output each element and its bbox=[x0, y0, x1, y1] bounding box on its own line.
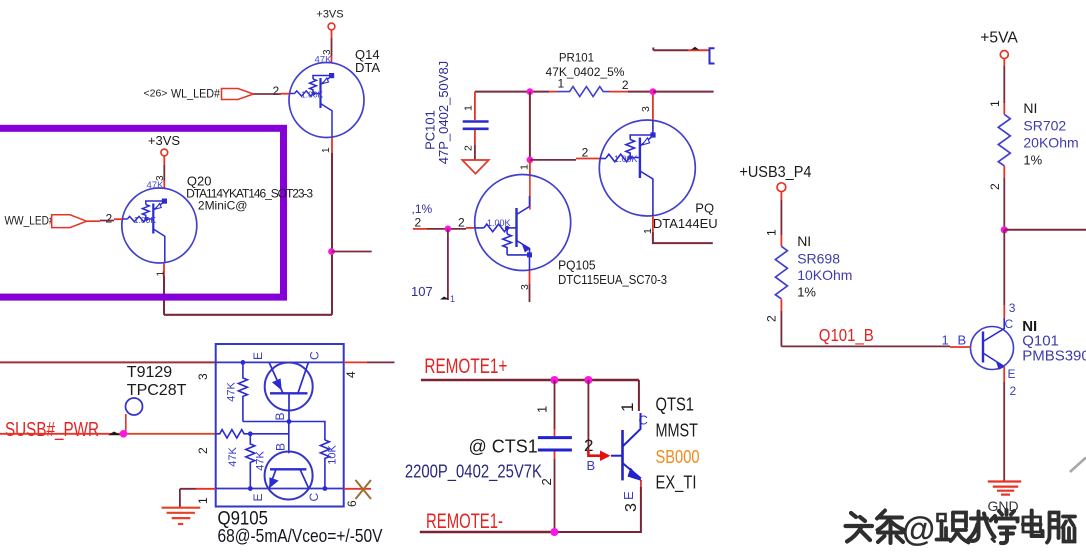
rail bottom inside Q9105 bbox=[216, 488, 344, 490]
svg-text:NI: NI bbox=[797, 233, 811, 249]
svg-text:C: C bbox=[1005, 317, 1014, 331]
transistor PQ106 circle bbox=[599, 120, 695, 216]
resistor 47K upper vertical bbox=[238, 362, 247, 421]
watermark glyph dian bbox=[1023, 511, 1043, 537]
wire top rail into Q9105 pin3 bbox=[0, 361, 216, 363]
svg-text:1: 1 bbox=[463, 105, 475, 111]
wire B-node right to 10K bbox=[289, 422, 325, 441]
svg-text:2: 2 bbox=[1010, 384, 1017, 398]
svg-text:E: E bbox=[251, 352, 265, 360]
no-connect X (pin6) bbox=[356, 480, 372, 499]
capacitor PC101 lead bottom bbox=[474, 130, 476, 145]
capacitor PC101 lead top bbox=[474, 92, 476, 120]
node junction (PQ105 input) bbox=[445, 226, 452, 233]
wire WW_LED# to Q20 pin2 bbox=[87, 220, 100, 222]
svg-text:107: 107 bbox=[411, 284, 433, 299]
wire +5VA to SR702 bbox=[1003, 59, 1005, 67]
node dot 47K top bbox=[241, 360, 246, 365]
watermark stray diagonal bbox=[1070, 458, 1086, 473]
port arrow WW_LED# bbox=[52, 215, 87, 228]
svg-text:DTA144EU: DTA144EU bbox=[653, 216, 718, 231]
transistor Q101 internals bbox=[983, 318, 1005, 370]
svg-text:PQ: PQ bbox=[695, 201, 714, 216]
transistor PQ105 circle bbox=[475, 175, 571, 271]
svg-text:1: 1 bbox=[618, 403, 637, 412]
svg-text:6: 6 bbox=[345, 500, 359, 507]
svg-text:1: 1 bbox=[765, 229, 779, 236]
wire-end tick (107 fragment) bbox=[440, 297, 450, 300]
svg-text:SR698: SR698 bbox=[797, 251, 840, 267]
svg-text:1: 1 bbox=[558, 77, 565, 91]
svg-text:+USB3_P4: +USB3_P4 bbox=[739, 164, 811, 181]
wire SUSB#_PWR to Q9105 pin2 bbox=[0, 433, 124, 435]
wire PQ106 collector down and right bbox=[652, 192, 654, 216]
wire pin4 right bbox=[344, 361, 367, 363]
svg-text:<26>: <26> bbox=[144, 88, 168, 100]
transistor PQ105 internals bbox=[475, 207, 532, 258]
svg-text:2: 2 bbox=[196, 447, 210, 454]
wire +3VS to Q14 pin3 bbox=[331, 30, 333, 38]
wire QTS1 emitter down bbox=[640, 480, 642, 487]
resistor 10K vertical bbox=[320, 440, 329, 489]
resistor SR698 zigzag bbox=[775, 246, 787, 299]
capacitor CTS1 plates bbox=[538, 438, 572, 450]
svg-text:20KOhm: 20KOhm bbox=[1023, 135, 1078, 151]
watermark glyph gen bbox=[937, 513, 969, 543]
svg-text:3: 3 bbox=[623, 503, 640, 512]
svg-text:WL_LED#: WL_LED# bbox=[171, 89, 221, 101]
svg-text:1.00K: 1.00K bbox=[487, 218, 511, 228]
power +3VS (Q20 branch) symbol bbox=[161, 149, 168, 156]
svg-text:10KOhm: 10KOhm bbox=[797, 267, 852, 283]
svg-text:WW_LED#: WW_LED# bbox=[5, 216, 56, 228]
svg-text:@ CTS1: @ CTS1 bbox=[469, 437, 538, 457]
svg-text:B: B bbox=[274, 443, 288, 451]
wire Q101 emitter to GND bbox=[1003, 367, 1005, 383]
svg-text:2MiniC@: 2MiniC@ bbox=[198, 199, 248, 213]
wire SR702 to junction bbox=[1003, 166, 1005, 178]
capacitor CTS1 lead bottom bbox=[554, 452, 556, 460]
svg-text:1: 1 bbox=[196, 497, 210, 504]
watermark glyph wo bbox=[969, 512, 996, 542]
svg-text:REMOTE1-: REMOTE1- bbox=[426, 510, 503, 533]
wire QTS1 collector feed bbox=[638, 380, 640, 411]
wire REMOTE1- rail bbox=[420, 531, 555, 533]
watermark glyph tiao bbox=[877, 511, 903, 544]
svg-text:1%: 1% bbox=[797, 285, 816, 300]
wire PR101 pin2 to junction bbox=[609, 91, 628, 93]
ground symbol (Q9105) bbox=[162, 508, 201, 524]
svg-text:4: 4 bbox=[344, 371, 358, 378]
node junction (Q14 emitter stub) bbox=[328, 248, 335, 255]
rail top inside Q9105 bbox=[216, 361, 344, 363]
svg-text:1: 1 bbox=[942, 333, 949, 348]
svg-text:2: 2 bbox=[765, 315, 779, 322]
wire PQ105 emitter down bbox=[529, 257, 531, 271]
power +USB3_P4 symbol bbox=[777, 183, 786, 192]
svg-text:NI: NI bbox=[1023, 100, 1037, 116]
svg-text:2: 2 bbox=[415, 216, 422, 230]
testpoint T9129 circle bbox=[126, 398, 143, 415]
wire junction down (to 107 fragment) bbox=[447, 229, 449, 300]
node dot 10K bottom bbox=[323, 486, 328, 491]
wire left fragment to PQ105 pin2 bbox=[413, 228, 427, 230]
transistor Q101 circle bbox=[971, 327, 1014, 370]
svg-text:2200P_0402_25V7K: 2200P_0402_25V7K bbox=[405, 462, 542, 483]
svg-text:2: 2 bbox=[582, 146, 589, 160]
svg-text:1: 1 bbox=[535, 406, 550, 413]
svg-text:+3VS: +3VS bbox=[316, 9, 343, 21]
svg-text:SR702: SR702 bbox=[1023, 118, 1066, 134]
svg-text:68@-5mA/Vceo=+/-50V: 68@-5mA/Vceo=+/-50V bbox=[218, 525, 384, 546]
node junction (QTS1 branch top) bbox=[584, 376, 592, 384]
transistor Q9105 lower internals bbox=[269, 469, 309, 488]
power +3VS (Q14 branch) symbol bbox=[328, 23, 335, 30]
wire arrow into QTS1 base bbox=[588, 450, 602, 456]
capacitor CTS1 lead top bbox=[554, 380, 556, 429]
svg-text:1: 1 bbox=[988, 100, 1002, 107]
wire junction right to end bbox=[653, 91, 714, 93]
node junction (cap bottom) bbox=[550, 528, 558, 536]
transistor QTS1 bbox=[611, 413, 643, 481]
svg-text:2: 2 bbox=[988, 183, 1002, 190]
node junction 2 (PQ105 collector / PQ106 base) bbox=[527, 157, 534, 164]
svg-text:SB000: SB000 bbox=[656, 447, 700, 467]
wire testpoint stub bbox=[125, 414, 127, 434]
svg-text:2: 2 bbox=[622, 78, 629, 92]
svg-text:E: E bbox=[1008, 367, 1016, 381]
wire node2 right to PQ106 base bbox=[530, 159, 576, 161]
transistor Q9105 lower circle bbox=[265, 452, 313, 500]
wire +3VS to Q20 pin3 bbox=[163, 156, 165, 165]
ground power-triangle (PC101) bbox=[462, 160, 489, 174]
svg-text:DTA: DTA bbox=[355, 60, 380, 75]
port arrow WL_LED# bbox=[222, 89, 254, 100]
resistor 47K lower vertical bbox=[246, 434, 255, 489]
svg-text:EX_TI: EX_TI bbox=[656, 473, 697, 494]
svg-text:1: 1 bbox=[321, 147, 332, 153]
wire-end tick black bbox=[108, 432, 121, 436]
wire junction down to Q101 collector bbox=[1003, 230, 1005, 305]
svg-text:1: 1 bbox=[156, 271, 167, 277]
node junction (cap top) bbox=[550, 376, 558, 384]
transistor Q20 internals bbox=[122, 199, 167, 263]
wire junction down to node2 bbox=[529, 92, 531, 160]
resistor PR101 zigzag bbox=[557, 87, 610, 97]
node dot 47K bottom bbox=[248, 486, 253, 491]
wire +USB3_P4 to SR698 bbox=[780, 192, 782, 200]
svg-text:E: E bbox=[251, 493, 265, 501]
transistor Q9105 upper circle bbox=[265, 363, 313, 411]
component box Q9105 bbox=[216, 344, 344, 507]
node dot B upper bbox=[287, 419, 292, 424]
svg-text:1.00K: 1.00K bbox=[301, 90, 324, 100]
wire pin1 to ground bbox=[196, 488, 216, 490]
wire SR698 to Q101_B corner bbox=[780, 299, 782, 311]
svg-text:3: 3 bbox=[196, 373, 210, 380]
wire bottom U connecting Q14/Q20 emitters bbox=[164, 314, 332, 316]
svg-text:1.00K: 1.00K bbox=[614, 154, 638, 164]
highlight purple box bbox=[0, 128, 284, 297]
svg-text:@: @ bbox=[902, 511, 935, 549]
svg-text:QTS1: QTS1 bbox=[656, 395, 695, 415]
svg-text:2: 2 bbox=[106, 212, 113, 226]
wire PQ105 collector top inside bbox=[529, 196, 531, 207]
wire REMOTE1+ rail bbox=[421, 379, 639, 381]
wire PC101 top to PR101 bbox=[475, 91, 530, 93]
wire QTS1 branch vertical bbox=[587, 380, 589, 450]
fragment wire top-right bbox=[653, 49, 688, 51]
wire stub right from junction bbox=[332, 251, 372, 253]
svg-text:3: 3 bbox=[640, 106, 652, 112]
wire pin6 right bbox=[344, 488, 371, 490]
transistor Q14 internals bbox=[290, 73, 335, 137]
node junction (PR101/PC101 top) bbox=[527, 88, 534, 95]
transistor Q14 circle bbox=[289, 63, 364, 138]
svg-text:10K: 10K bbox=[327, 445, 339, 465]
wire WL_LED# to Q14 pin2 bbox=[254, 93, 269, 95]
transistor Q9105 upper internals bbox=[269, 362, 308, 421]
svg-text:TPC28T: TPC28T bbox=[127, 382, 187, 399]
svg-text:+5VA: +5VA bbox=[980, 30, 1018, 47]
svg-text:1: 1 bbox=[450, 294, 455, 304]
wire base column down bbox=[288, 422, 290, 454]
wire node2 into PQ105 bbox=[529, 160, 531, 175]
svg-text:1: 1 bbox=[519, 164, 531, 170]
fragment arrow tick bbox=[691, 47, 699, 50]
svg-text:MMST: MMST bbox=[656, 421, 699, 441]
wire B-node left to 47K bbox=[243, 421, 289, 423]
node junction (PR101 pin2 / PQ106) bbox=[650, 88, 657, 95]
svg-text:DTC115EUA_SC70-3: DTC115EUA_SC70-3 bbox=[558, 273, 667, 287]
svg-text:Q101_B: Q101_B bbox=[819, 325, 874, 346]
svg-text:C: C bbox=[307, 493, 321, 502]
ground GND symbol bbox=[988, 482, 1021, 495]
power +5VA symbol bbox=[1000, 51, 1008, 59]
node dot pin2 junction bbox=[248, 431, 253, 436]
svg-text:2: 2 bbox=[273, 84, 280, 98]
svg-text:1.00K: 1.00K bbox=[134, 215, 157, 225]
resistor SR702 zigzag bbox=[998, 114, 1010, 165]
svg-text:47K: 47K bbox=[226, 382, 238, 402]
svg-text:E: E bbox=[621, 491, 636, 500]
resistor 47K horizontal (pin2) bbox=[216, 430, 250, 438]
svg-text:B: B bbox=[273, 412, 287, 420]
svg-text:PMBS3904: PMBS3904 bbox=[1022, 348, 1086, 365]
transistor Q20 circle bbox=[122, 188, 197, 263]
svg-text:47K: 47K bbox=[255, 451, 267, 471]
svg-text:T9129: T9129 bbox=[127, 364, 172, 381]
svg-text:PQ105: PQ105 bbox=[558, 258, 596, 273]
svg-text:B: B bbox=[587, 458, 596, 473]
fragment blue bracket bbox=[710, 48, 715, 63]
svg-text:REMOTE1+: REMOTE1+ bbox=[424, 355, 507, 378]
svg-text:2: 2 bbox=[458, 216, 465, 230]
svg-text:PR101: PR101 bbox=[559, 53, 594, 65]
capacitor PC101 plates bbox=[463, 122, 489, 129]
transistor PQ106 internals bbox=[600, 132, 656, 192]
watermark glyph nao bbox=[1047, 513, 1075, 543]
watermark glyph xue bbox=[996, 510, 1018, 543]
wire Q101 base from SR698 bbox=[781, 345, 950, 347]
wire junction to base column bbox=[250, 433, 288, 435]
svg-text:B: B bbox=[958, 333, 967, 348]
svg-text:2: 2 bbox=[463, 145, 475, 151]
node junction (SR702 bottom) bbox=[1001, 226, 1008, 233]
svg-text:3: 3 bbox=[1009, 301, 1016, 315]
wire junction right to edge bbox=[1004, 229, 1086, 231]
svg-text:+3VS: +3VS bbox=[148, 133, 180, 148]
svg-text:1%: 1% bbox=[1023, 153, 1042, 168]
watermark glyph tou bbox=[846, 513, 873, 542]
svg-text:47P_0402_50V8J: 47P_0402_50V8J bbox=[436, 61, 451, 164]
svg-text:,1%: ,1% bbox=[412, 202, 433, 216]
node junction (SUSB) bbox=[120, 430, 128, 438]
wire PQ106 emitter to top junction bbox=[652, 120, 654, 135]
svg-text:C: C bbox=[308, 351, 322, 360]
wire Q14 emitter down bbox=[331, 138, 333, 154]
svg-text:SUSB#_PWR: SUSB#_PWR bbox=[5, 418, 99, 441]
svg-text:47K: 47K bbox=[227, 447, 239, 467]
